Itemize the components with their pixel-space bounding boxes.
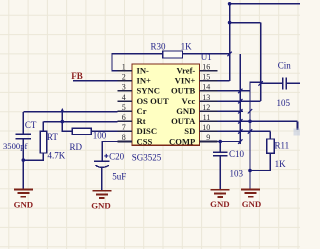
- svg-text:12: 12: [202, 103, 210, 112]
- IC pin stubs right: [200, 71, 218, 142]
- svg-text:1K: 1K: [181, 41, 193, 51]
- wire pin11 OUTA net: [218, 120, 298, 122]
- svg-text:GND: GND: [176, 106, 195, 116]
- svg-text:103: 103: [230, 169, 244, 179]
- wire OUTA down stub: [296, 121, 298, 130]
- node R11/GND junction: [248, 169, 252, 173]
- wire pin12 GND net: [218, 110, 243, 112]
- svg-text:CSS: CSS: [137, 136, 153, 146]
- resistor RD: [70, 128, 107, 152]
- svg-text:8: 8: [122, 133, 126, 142]
- svg-text:GND: GND: [242, 199, 262, 209]
- svg-text:GND: GND: [14, 199, 34, 209]
- wire FB net: [73, 80, 118, 82]
- svg-text:IN+: IN+: [137, 76, 152, 86]
- ground (C10): [211, 190, 230, 197]
- wire pin5 Cr net: [23, 111, 117, 113]
- svg-text:SG3525: SG3525: [132, 153, 162, 163]
- capacitor C10: [213, 152, 228, 156]
- wire R11 bottom lead: [250, 153, 270, 170]
- wire pin13 Vcc net: [218, 100, 261, 102]
- svg-text:14: 14: [202, 83, 210, 92]
- svg-text:105: 105: [277, 98, 291, 108]
- svg-text:IN-: IN-: [137, 66, 150, 76]
- wire long vertical x240: [239, 54, 241, 144]
- wire RT top lead: [42, 122, 44, 132]
- wire C10 bottom to GND: [219, 156, 221, 189]
- wire Cin right lead: [286, 82, 300, 84]
- node rail junction A: [228, 2, 232, 6]
- wire CT bottom to GND: [22, 139, 24, 189]
- svg-text:SYNC: SYNC: [137, 86, 160, 96]
- svg-text:Vref-: Vref-: [177, 66, 196, 76]
- wire R30 left lead + pin1 riser: [112, 54, 163, 71]
- wire vertical x260 from rail2: [260, 23, 262, 102]
- svg-text:4: 4: [122, 93, 126, 102]
- svg-text:GND: GND: [210, 199, 230, 209]
- svg-text:OUTA: OUTA: [171, 116, 196, 126]
- wire R11 top lead: [269, 131, 271, 139]
- svg-text:U1: U1: [201, 52, 212, 62]
- svg-text:1: 1: [122, 62, 126, 71]
- wire x250 to GND: [249, 171, 251, 189]
- node OUTA junction: [248, 120, 252, 124]
- op-amp U1 SG3525 IC body: [132, 52, 212, 163]
- resistor R30: [151, 41, 193, 58]
- wire pin15 to rail: [218, 80, 230, 82]
- wire CT top lead: [22, 112, 24, 134]
- svg-text:2: 2: [122, 73, 126, 82]
- svg-text:10: 10: [202, 123, 210, 132]
- wire pin14 OUTB step: [218, 82, 261, 91]
- svg-text:100: 100: [93, 131, 107, 141]
- wire pin9 COMP net: [218, 141, 241, 143]
- IC pin names left: [137, 66, 170, 147]
- wire RT bottom lead: [23, 153, 43, 160]
- svg-text:9: 9: [206, 133, 210, 142]
- svg-text:RD: RD: [70, 142, 83, 152]
- IC pin stubs left: [118, 71, 132, 142]
- svg-text:RT: RT: [47, 132, 58, 142]
- wire second rail: [230, 22, 261, 24]
- wire pin6 Rt net: [43, 121, 117, 123]
- svg-text:FB: FB: [71, 71, 83, 81]
- ground (C20): [92, 191, 111, 198]
- svg-text:1K: 1K: [275, 159, 287, 169]
- svg-text:15: 15: [202, 73, 210, 82]
- svg-text:13: 13: [202, 93, 210, 102]
- svg-text:11: 11: [203, 113, 211, 122]
- wire C20 bottom to GND: [101, 167, 103, 190]
- svg-text:16: 16: [202, 62, 210, 71]
- arrow marker on pin5 net: [60, 108, 64, 112]
- svg-text:3500pf: 3500pf: [3, 141, 27, 151]
- svg-text:7: 7: [122, 123, 126, 132]
- pin numbers left: [122, 62, 126, 142]
- wire pin8 CSS to C20: [102, 142, 117, 162]
- svg-text:Cr: Cr: [137, 106, 147, 116]
- node rail junction B: [228, 21, 232, 25]
- capacitor Cin: [283, 78, 287, 90]
- svg-text:GND: GND: [91, 200, 111, 210]
- svg-text:6: 6: [122, 113, 126, 122]
- node COMP/C10 junction: [218, 140, 222, 144]
- svg-text:R30: R30: [151, 42, 167, 52]
- IC pin names right: [169, 66, 196, 147]
- svg-text:C20: C20: [109, 152, 125, 162]
- capacitor C20 polarized: [94, 161, 110, 167]
- svg-text:VIN+: VIN+: [175, 76, 196, 86]
- wire top supply rail: [230, 3, 300, 5]
- node CT/RT junction: [22, 158, 26, 162]
- svg-text:Cin: Cin: [278, 61, 292, 71]
- resistor RT: [40, 131, 65, 160]
- wire R30 right lead: [183, 53, 230, 55]
- wire Cin left lead: [261, 82, 283, 84]
- svg-text:C10: C10: [229, 149, 245, 159]
- capacitor CT: [16, 134, 32, 138]
- svg-text:Rt: Rt: [137, 116, 146, 126]
- wire C10 top lead: [219, 142, 221, 153]
- svg-text:OUTB: OUTB: [171, 86, 196, 96]
- svg-text:CT: CT: [25, 120, 37, 130]
- wire pin10 SD net: [218, 130, 271, 132]
- svg-text:3: 3: [122, 83, 126, 92]
- wire hop marks: [227, 52, 262, 144]
- pin numbers right: [202, 62, 210, 142]
- svg-text:5uF: 5uF: [112, 171, 126, 181]
- ground (R11): [241, 189, 260, 196]
- svg-text:OS OUT: OS OUT: [137, 96, 170, 106]
- svg-text:5: 5: [122, 103, 126, 112]
- wire RD right lead to pin7: [91, 130, 117, 132]
- svg-text:DISC: DISC: [137, 126, 158, 136]
- svg-text:SD: SD: [184, 126, 195, 136]
- resistor R11: [267, 139, 290, 169]
- svg-text:R11: R11: [275, 141, 290, 151]
- ground (CT): [14, 189, 33, 196]
- svg-text:Vcc: Vcc: [181, 96, 195, 106]
- svg-text:COMP: COMP: [169, 136, 195, 146]
- wire Cr/Rt divider vertical: [62, 112, 72, 131]
- node Rt/RD junction: [61, 120, 65, 124]
- off-sheet stub shade: [294, 129, 301, 136]
- svg-text:4.7K: 4.7K: [48, 150, 66, 160]
- wire vertical x250: [249, 82, 251, 170]
- wire vertical V+ feed to pin 15: [229, 4, 231, 81]
